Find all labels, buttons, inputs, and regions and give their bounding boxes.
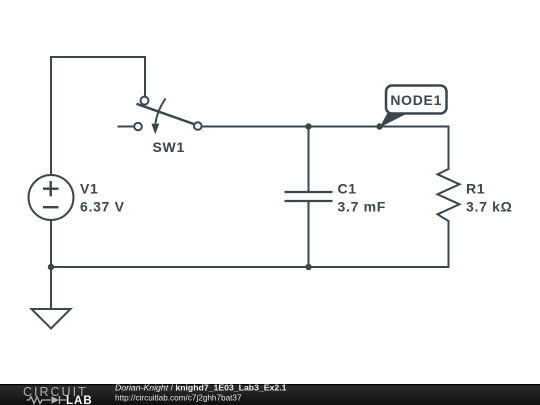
svg-text:NODE1: NODE1 <box>390 92 442 108</box>
svg-text:Dorian-Knight / knighd7_1E03_L: Dorian-Knight / knighd7_1E03_Lab3_Ex2.1 <box>115 383 287 393</box>
switch SW1 top terminal circle <box>141 97 149 105</box>
footer bar <box>0 385 540 405</box>
switch SW1 actuation arrow <box>155 99 165 124</box>
wire resistor bottom to bottom rail <box>448 221 450 267</box>
wire bottom rail <box>51 266 449 268</box>
switch SW1 blade <box>137 104 194 124</box>
svg-text:R1: R1 <box>466 181 485 197</box>
switch SW1 <box>134 97 201 135</box>
V1 plus sign <box>43 181 59 196</box>
svg-text:C1: C1 <box>338 181 357 197</box>
node NODE1 junction dot on top rail <box>376 123 382 129</box>
wire right side down to resistor <box>448 127 450 170</box>
svg-text:LAB: LAB <box>66 395 93 405</box>
V1 minus sign <box>43 206 59 208</box>
node NODE1 callout <box>380 86 447 128</box>
wire V1 bottom to junction <box>50 220 52 268</box>
wire from V1 top up and across to switch <box>51 57 145 176</box>
ground <box>32 309 71 329</box>
wire capacitor bottom lead <box>308 201 310 267</box>
wire stub at switch unused left terminal <box>119 126 135 128</box>
svg-text:6.37 V: 6.37 V <box>80 199 125 215</box>
switch SW1 left terminal circle <box>134 123 142 131</box>
svg-text:http://circuitlab.com/c7j2ghh7: http://circuitlab.com/c7j2ghh7bat37 <box>115 394 242 403</box>
junction dot capacitor bottom <box>305 264 311 270</box>
junction dot capacitor top <box>305 123 311 129</box>
switch SW1 right terminal circle <box>194 122 202 130</box>
capacitor C1 <box>285 192 333 201</box>
CircuitLab logo waveform <box>27 396 67 404</box>
wire from switch output to right corner (top rail) <box>202 126 449 128</box>
svg-text:3.7 kΩ: 3.7 kΩ <box>466 199 513 215</box>
voltage source V1 <box>29 175 74 220</box>
wire junction to ground <box>50 267 52 309</box>
svg-text:V1: V1 <box>80 181 99 197</box>
resistor R1 <box>438 169 460 221</box>
svg-text:SW1: SW1 <box>153 139 185 155</box>
svg-text:3.7 mF: 3.7 mF <box>338 199 387 215</box>
wire capacitor top lead <box>308 127 310 193</box>
junction dot V1 bottom / ground <box>48 264 54 270</box>
